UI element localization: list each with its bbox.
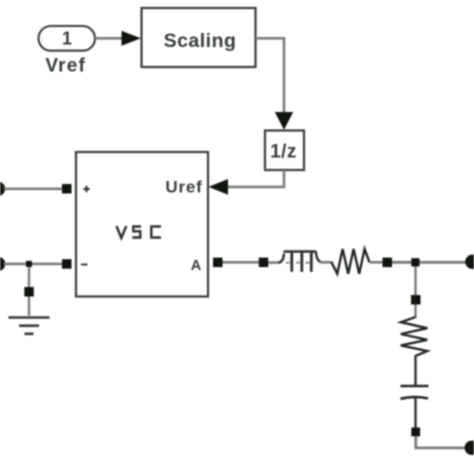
wire A to RLC branch — [223, 261, 260, 264]
junction on - wire — [26, 261, 32, 267]
shunt branch input square — [411, 295, 421, 305]
square on ground wire — [24, 287, 34, 297]
wire 1/z to VSC Uref — [228, 170, 284, 187]
A output port square — [213, 258, 223, 268]
resistor R (horizontal zigzag) — [332, 249, 370, 274]
- port square — [62, 259, 72, 269]
arrowhead into 1/z — [275, 112, 293, 130]
svg-text:Vref: Vref — [45, 55, 86, 76]
inductor L — [279, 252, 322, 272]
wire into inductor — [268, 261, 279, 264]
wire resistor to node square — [370, 261, 384, 264]
wire down and right to output circle — [416, 436, 467, 448]
RLC branch output square — [383, 258, 393, 268]
output port circle bottom right — [465, 441, 474, 455]
VSC title glyph S — [132, 227, 141, 238]
wire Vref to Scaling — [95, 37, 124, 40]
wire resistor to capacitor — [414, 355, 416, 385]
inport block Vref (oval "1") — [39, 26, 96, 51]
input port circle 2 — [0, 257, 5, 271]
VSC block — [76, 152, 208, 297]
port label + — [83, 186, 89, 192]
arrowhead into Uref — [209, 179, 229, 195]
+ port square — [62, 184, 72, 194]
capacitor C top plate — [401, 385, 429, 388]
svg-text:1/z: 1/z — [270, 142, 297, 163]
port label - — [81, 264, 88, 266]
shunt branch output square — [411, 428, 420, 437]
wire to - port — [4, 263, 63, 266]
wire node down to shunt branch — [414, 262, 416, 295]
unit delay block 1/z — [265, 131, 304, 171]
svg-text:Scaling: Scaling — [164, 30, 237, 52]
ground symbol — [9, 318, 50, 334]
wire to node junction — [392, 261, 466, 264]
wire inductor to resistor — [320, 261, 333, 264]
arrowhead into Scaling — [122, 31, 142, 46]
wire junction down to ground — [28, 264, 30, 316]
VSC title glyph C — [151, 227, 161, 238]
RLC branch input square — [259, 258, 269, 268]
svg-text:A: A — [191, 258, 202, 274]
resistor R (vertical zigzag) — [401, 317, 428, 356]
wire to + port — [4, 188, 63, 191]
VSC title glyph V — [117, 226, 127, 238]
input port circle 1 — [0, 182, 5, 196]
node junction dot — [411, 258, 419, 266]
wire square to resistor — [414, 305, 416, 319]
block Scaling — [142, 8, 256, 67]
capacitor C bottom plate — [401, 397, 429, 399]
svg-text:Uref: Uref — [165, 178, 202, 197]
wire Scaling to 1/z — [256, 38, 285, 112]
wire capacitor down — [414, 398, 416, 429]
svg-text:1: 1 — [62, 28, 72, 48]
output port circle right — [465, 255, 474, 269]
